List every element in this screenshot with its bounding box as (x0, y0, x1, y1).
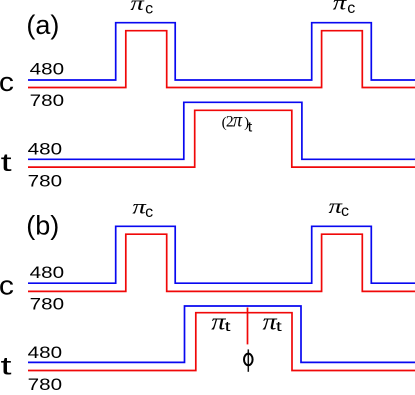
wavelength label 480 target panel b (28, 344, 62, 362)
svg-text:780: 780 (28, 172, 62, 190)
wavelength label 780 target panel b (28, 376, 62, 394)
svg-text:780: 780 (28, 376, 62, 394)
svg-text:(b): (b) (26, 210, 59, 240)
pulse label pi_c first pulse panel b (132, 195, 153, 221)
svg-text:c: c (347, 0, 355, 17)
wire: red 780nm control trace panel a (28, 31, 415, 88)
svg-text:t: t (1, 353, 12, 381)
wavelength label 480 control panel b (30, 264, 64, 282)
channel label t panel a (1, 149, 12, 177)
svg-text:c: c (0, 270, 14, 300)
phase label phi panel b (244, 349, 253, 371)
svg-text:c: c (145, 204, 153, 221)
wavelength label 780 target panel a (28, 172, 62, 190)
wavelength label 780 control panel a (30, 92, 64, 110)
svg-text:t: t (276, 318, 282, 334)
wire: blue 480nm target trace panel a (28, 102, 415, 159)
wire: blue 480nm target trace panel b (28, 306, 415, 362)
pulse label pi_c second pulse panel a (333, 0, 355, 17)
svg-text:480: 480 (30, 61, 64, 79)
wire: red 780nm target trace panel a (28, 110, 415, 167)
svg-text:t: t (248, 118, 253, 134)
pulse label pi_c first pulse panel a (130, 0, 153, 17)
svg-text:480: 480 (30, 264, 64, 282)
svg-text:t: t (1, 149, 12, 177)
svg-text:780: 780 (30, 92, 64, 110)
pulse label (2pi)_t panel a (222, 110, 253, 135)
channel label c panel a (0, 67, 14, 97)
panel label (a) (26, 10, 59, 40)
wire: blue 480nm control trace panel b (28, 226, 415, 283)
svg-text:t: t (225, 318, 231, 334)
channel label t panel b (1, 353, 12, 381)
wavelength label 480 target panel a (28, 141, 62, 159)
svg-text:480: 480 (28, 141, 62, 159)
svg-text:780: 780 (30, 296, 64, 314)
svg-text:π: π (130, 0, 144, 15)
svg-text:c: c (0, 67, 14, 97)
wavelength label 780 control panel b (30, 296, 64, 314)
wavelength label 480 control panel a (30, 61, 64, 79)
wire: red 780nm control trace panel b (28, 234, 415, 291)
wire: red 780nm target trace panel b (28, 313, 415, 371)
channel label c panel b (0, 270, 14, 300)
pulse label pi_t left panel b (211, 310, 230, 336)
wire: blue 480nm control trace panel a (28, 23, 415, 80)
pulse label pi_c second pulse panel b (329, 194, 349, 220)
svg-text:c: c (341, 203, 349, 220)
svg-text:c: c (145, 0, 153, 17)
svg-text:(a): (a) (26, 10, 59, 40)
svg-text:π: π (333, 0, 347, 15)
pulse label pi_t right panel b (263, 310, 282, 336)
panel label (b) (26, 210, 59, 240)
svg-text:π: π (233, 110, 243, 132)
svg-text:480: 480 (28, 344, 62, 362)
phase jump tick (red) panel b (247, 308, 249, 345)
